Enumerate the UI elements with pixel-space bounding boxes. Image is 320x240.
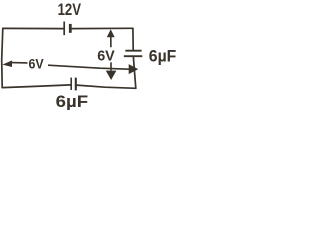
svg-text:12V: 12V [58,0,81,19]
svg-text:6µF: 6µF [149,47,177,65]
svg-text:6µF: 6µF [56,92,89,110]
svg-text:6V: 6V [97,48,115,65]
svg-text:6V: 6V [29,56,45,72]
